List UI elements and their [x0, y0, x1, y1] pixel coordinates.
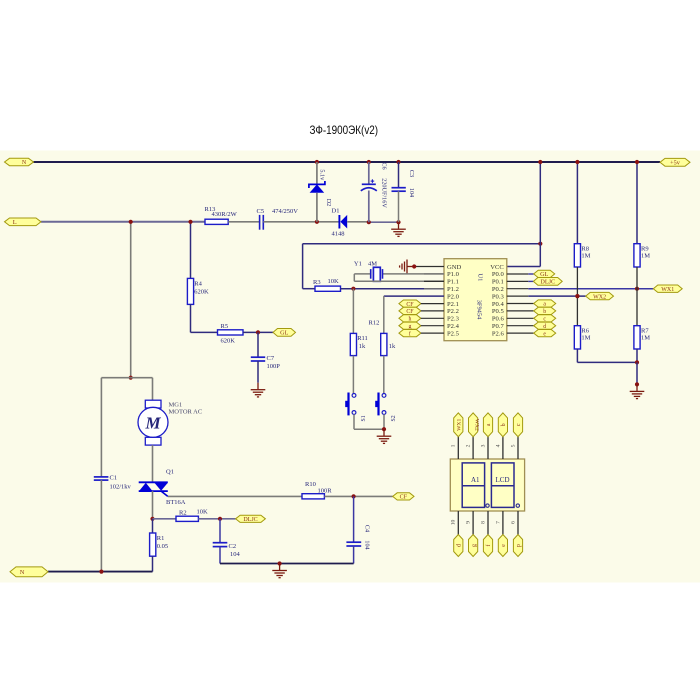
svg-text:R2: R2	[179, 509, 187, 516]
svg-text:R10: R10	[305, 481, 316, 488]
svg-text:WX2: WX2	[473, 419, 479, 431]
junction	[635, 287, 639, 291]
wire	[198, 518, 235, 520]
svg-text:WX1: WX1	[661, 287, 674, 293]
svg-text:1M: 1M	[581, 253, 590, 260]
wire	[507, 310, 534, 312]
svg-text:S1: S1	[361, 415, 367, 421]
wire	[220, 563, 354, 565]
svg-text:R4: R4	[194, 280, 202, 287]
node L	[5, 218, 42, 226]
wire	[219, 519, 221, 543]
wire	[421, 325, 444, 327]
wire	[383, 414, 385, 429]
node d (display bottom)	[454, 535, 463, 557]
capacitor C2	[213, 543, 241, 558]
node CF	[393, 493, 414, 501]
svg-text:4148: 4148	[332, 230, 345, 237]
wire	[302, 244, 304, 289]
svg-text:C3: C3	[408, 170, 415, 177]
svg-text:p: p	[516, 544, 522, 547]
node f (display bottom)	[483, 535, 492, 557]
wire	[41, 221, 205, 223]
svg-text:e: e	[543, 331, 546, 337]
wire	[243, 331, 273, 333]
svg-text:474/250V: 474/250V	[272, 208, 298, 215]
ground (rotated) at GND pin	[400, 260, 415, 274]
junction	[315, 160, 319, 164]
svg-text:P1.2: P1.2	[447, 286, 459, 293]
wire	[101, 377, 130, 379]
wire	[353, 414, 355, 429]
resistor R10	[302, 481, 332, 499]
junction	[575, 294, 579, 298]
junction	[352, 494, 356, 498]
wire	[100, 378, 102, 477]
svg-text:DLJC: DLJC	[243, 517, 257, 523]
wire	[576, 267, 578, 326]
svg-text:P0.5: P0.5	[492, 308, 505, 315]
svg-text:3F9454: 3F9454	[475, 300, 482, 320]
wire	[502, 511, 504, 535]
svg-text:C7: C7	[267, 355, 275, 362]
svg-text:104: 104	[408, 188, 415, 197]
wire	[354, 428, 384, 430]
wire	[354, 280, 444, 282]
triac Q1 BT16A	[139, 468, 186, 506]
wire	[507, 288, 529, 290]
schematic sheet	[0, 151, 700, 583]
wire	[152, 556, 154, 571]
node a	[534, 300, 556, 308]
wire	[168, 495, 302, 497]
wire	[398, 162, 400, 188]
resistor R13	[205, 206, 238, 224]
svg-text:c: c	[516, 423, 522, 426]
resistor R3	[313, 278, 341, 291]
junction	[635, 160, 639, 164]
diode D1	[332, 207, 348, 237]
wire	[517, 511, 519, 535]
switch S1	[345, 393, 367, 422]
svg-text:P0.3: P0.3	[492, 293, 505, 300]
wire	[347, 221, 369, 223]
svg-text:220UF/16V: 220UF/16V	[380, 178, 387, 208]
svg-text:A1: A1	[471, 476, 480, 484]
svg-text:P0.7: P0.7	[492, 323, 505, 330]
junction	[150, 517, 154, 521]
junction	[412, 264, 416, 268]
svg-text:4M: 4M	[368, 260, 377, 267]
wire	[383, 273, 445, 275]
node N (bottom)	[10, 567, 48, 577]
wire	[383, 356, 385, 394]
svg-text:D1: D1	[332, 207, 340, 214]
wire	[507, 332, 534, 334]
junction	[382, 427, 386, 431]
wire	[424, 280, 444, 282]
switch S2	[375, 393, 397, 422]
svg-text:Q1: Q1	[166, 468, 174, 475]
wire	[152, 491, 154, 519]
wire	[421, 332, 444, 334]
node WX1 (display top)	[454, 413, 463, 437]
svg-text:ЗФ-1900ЭК(v2): ЗФ-1900ЭК(v2)	[310, 123, 379, 137]
node a (display top)	[483, 413, 492, 437]
capacitor C6	[361, 162, 388, 208]
svg-text:620K: 620K	[221, 337, 236, 344]
svg-text:GL: GL	[280, 330, 288, 337]
resistor R9	[634, 244, 650, 267]
svg-text:9: 9	[466, 521, 472, 524]
svg-text:104: 104	[364, 540, 371, 549]
node c	[534, 315, 556, 323]
display A1 LCD	[450, 459, 524, 511]
resistor R6	[574, 326, 590, 349]
wire	[507, 303, 534, 305]
node b	[534, 307, 556, 315]
svg-text:C1: C1	[110, 475, 118, 482]
node c (display top)	[513, 413, 522, 437]
junction	[315, 220, 319, 224]
wire	[528, 295, 585, 297]
svg-text:P2.4: P2.4	[447, 323, 460, 330]
svg-text:R3: R3	[313, 279, 321, 286]
wire	[424, 288, 444, 290]
svg-text:P0.0: P0.0	[492, 271, 505, 278]
svg-text:C4: C4	[364, 525, 371, 532]
wire	[257, 361, 259, 383]
svg-text:1M: 1M	[581, 335, 590, 342]
svg-text:5.1v: 5.1v	[318, 169, 325, 181]
svg-text:P2.0: P2.0	[447, 293, 460, 300]
junction	[188, 220, 192, 224]
svg-text:P1.1: P1.1	[447, 279, 459, 286]
svg-text:5: 5	[510, 444, 516, 447]
node CF (P2.1)	[399, 300, 421, 308]
wire	[636, 162, 638, 244]
svg-text:P0.1: P0.1	[492, 279, 504, 286]
svg-text:P0.6: P0.6	[492, 316, 505, 323]
wire	[316, 162, 318, 184]
wire	[153, 518, 177, 520]
crystal Y1 4M	[354, 260, 383, 281]
wire	[398, 191, 400, 222]
svg-text:Y1: Y1	[354, 260, 362, 267]
junction	[256, 330, 260, 334]
resistor R4	[187, 278, 209, 304]
svg-text:P1.0: P1.0	[447, 271, 460, 278]
wire	[457, 437, 459, 459]
svg-text:N: N	[22, 160, 27, 166]
svg-text:10K: 10K	[328, 278, 340, 285]
svg-text:MG1: MG1	[169, 401, 183, 408]
wire	[457, 511, 459, 535]
svg-text:1k: 1k	[389, 343, 396, 350]
wire	[352, 289, 354, 334]
wire	[502, 437, 504, 459]
wire	[191, 331, 218, 333]
svg-text:S2: S2	[391, 415, 397, 421]
wire	[353, 546, 355, 564]
svg-text:P2.6: P2.6	[492, 330, 505, 337]
wire	[228, 221, 259, 223]
svg-text:1M: 1M	[641, 253, 650, 260]
wire	[507, 266, 541, 268]
svg-text:R11: R11	[357, 335, 368, 342]
svg-text:8: 8	[480, 521, 486, 524]
resistor R2	[176, 508, 208, 521]
junction	[367, 160, 371, 164]
motor MG1 MOTOR AC	[138, 400, 202, 445]
wire	[354, 273, 370, 275]
svg-text:C5: C5	[257, 208, 265, 215]
junction	[538, 242, 542, 246]
wire	[421, 303, 444, 305]
junction	[635, 382, 639, 386]
wire	[507, 273, 529, 275]
svg-text:P2.3: P2.3	[447, 316, 460, 323]
capacitor C5	[257, 208, 299, 230]
node d	[534, 322, 556, 330]
ground	[272, 564, 287, 578]
wire	[472, 437, 474, 459]
wire	[152, 378, 154, 401]
wire	[384, 295, 444, 297]
wire	[34, 161, 661, 163]
svg-text:f: f	[409, 330, 411, 337]
node GL	[273, 329, 296, 337]
svg-text:R5: R5	[221, 323, 229, 330]
svg-text:MOTOR AC: MOTOR AC	[169, 408, 203, 415]
svg-text:M: M	[144, 413, 161, 432]
svg-text:R12: R12	[369, 320, 380, 327]
wire	[636, 267, 638, 326]
svg-text:430R/2W: 430R/2W	[212, 211, 238, 218]
power +5v	[660, 158, 690, 166]
wire	[414, 266, 444, 268]
svg-text:R7: R7	[641, 328, 649, 335]
svg-text:10K: 10K	[197, 508, 209, 515]
wire	[303, 243, 541, 245]
wire	[190, 304, 192, 332]
junction	[351, 287, 355, 291]
wire	[507, 325, 534, 327]
svg-text:R6: R6	[581, 328, 589, 335]
wire	[383, 296, 385, 333]
wire	[190, 222, 192, 279]
junction	[575, 294, 579, 298]
junction	[575, 160, 579, 164]
node CF (P2.2)	[399, 307, 421, 315]
wire	[576, 349, 578, 362]
wire	[100, 480, 102, 571]
wire	[368, 191, 370, 223]
svg-text:+5v: +5v	[670, 160, 681, 167]
svg-text:e: e	[501, 544, 507, 547]
svg-text:6: 6	[510, 521, 516, 524]
junction	[129, 376, 133, 380]
ground	[251, 383, 266, 397]
wire	[130, 222, 132, 378]
IC U1 3F9454	[444, 259, 507, 341]
resistor R1	[150, 533, 169, 556]
svg-text:b: b	[501, 423, 507, 426]
node DLJC (P0.1)	[533, 278, 562, 286]
junction	[218, 517, 222, 521]
wire	[303, 288, 315, 290]
svg-text:4: 4	[495, 444, 501, 447]
junction	[129, 220, 133, 224]
wire	[576, 162, 578, 244]
junction	[396, 160, 400, 164]
svg-text:10: 10	[451, 520, 457, 526]
node f	[399, 330, 421, 338]
svg-text:L: L	[13, 219, 17, 226]
wire	[352, 356, 354, 394]
svg-text:P0.4: P0.4	[492, 301, 505, 308]
wire	[257, 332, 259, 357]
resistor R5	[218, 323, 244, 344]
capacitor C3	[392, 170, 416, 197]
junction	[396, 220, 400, 224]
svg-text:R8: R8	[581, 246, 589, 253]
wire	[421, 317, 444, 319]
svg-text:R1: R1	[157, 535, 165, 542]
wire	[507, 317, 534, 319]
wire	[263, 221, 339, 223]
svg-text:7: 7	[495, 521, 501, 524]
svg-text:VCC: VCC	[490, 264, 504, 271]
svg-text:P0.2: P0.2	[492, 286, 504, 293]
svg-text:WX2: WX2	[593, 294, 606, 300]
node GL (P0.0)	[534, 270, 555, 278]
svg-text:102/1kv: 102/1kv	[110, 483, 132, 490]
node p (display bottom)	[513, 535, 522, 557]
node b (display top)	[498, 413, 507, 437]
wire	[487, 437, 489, 459]
ground	[377, 429, 392, 443]
wire	[353, 496, 355, 542]
wire	[577, 361, 637, 363]
svg-text:P2.1: P2.1	[447, 301, 459, 308]
svg-text:620K: 620K	[194, 288, 209, 295]
svg-text:f: f	[485, 544, 492, 546]
capacitor C7	[251, 355, 280, 370]
wire	[369, 221, 399, 223]
wire	[316, 193, 318, 222]
resistor R11	[350, 333, 368, 355]
wire	[472, 511, 474, 535]
wire	[424, 273, 444, 275]
wire	[368, 162, 370, 184]
svg-text:C2: C2	[229, 543, 237, 550]
svg-text:GND: GND	[447, 264, 462, 271]
svg-text:g: g	[471, 544, 477, 547]
node e (display bottom)	[498, 535, 507, 557]
svg-text:R9: R9	[641, 246, 649, 253]
wire	[539, 244, 541, 267]
wire	[131, 377, 153, 379]
wire	[528, 288, 653, 290]
wire	[152, 445, 154, 482]
wire	[507, 295, 529, 297]
ground	[630, 384, 645, 398]
node N	[5, 158, 34, 166]
node h	[399, 315, 421, 323]
capacitor C4	[346, 525, 370, 550]
resistor R12	[369, 320, 396, 356]
svg-text:1k: 1k	[359, 343, 366, 350]
junction	[367, 220, 371, 224]
node DLJC	[236, 515, 266, 523]
wire	[539, 162, 541, 244]
svg-text:BT16A: BT16A	[166, 499, 186, 506]
svg-text:0.05: 0.05	[157, 543, 168, 550]
svg-text:100R: 100R	[318, 487, 333, 494]
wire	[517, 437, 519, 459]
svg-text:CF: CF	[400, 495, 408, 501]
wire	[353, 274, 355, 281]
svg-text:D2: D2	[325, 199, 332, 207]
wire	[219, 547, 221, 564]
resistor R7	[634, 326, 650, 349]
ground	[391, 222, 406, 236]
node e	[534, 330, 556, 338]
junction	[99, 570, 103, 574]
wire	[324, 495, 392, 497]
wire	[421, 310, 444, 312]
svg-text:C6: C6	[380, 162, 387, 169]
wire	[528, 273, 533, 275]
svg-text:104: 104	[230, 551, 241, 558]
svg-text:U1: U1	[476, 273, 483, 281]
wire	[341, 288, 445, 290]
svg-text:1M: 1M	[641, 335, 650, 342]
svg-text:3: 3	[480, 444, 486, 447]
svg-text:a: a	[486, 423, 492, 426]
svg-text:1: 1	[451, 444, 457, 447]
svg-text:100P: 100P	[267, 363, 281, 370]
svg-text:WX1: WX1	[457, 419, 463, 431]
wire	[507, 280, 529, 282]
svg-text:P2.5: P2.5	[447, 330, 460, 337]
wire	[528, 280, 533, 282]
wire	[48, 571, 153, 573]
wire	[636, 362, 638, 384]
svg-text:P2.2: P2.2	[447, 308, 459, 315]
node g (display bottom)	[469, 535, 478, 557]
svg-text:LCD: LCD	[496, 476, 510, 484]
junction	[278, 561, 282, 565]
wire	[487, 511, 489, 535]
junction	[635, 360, 639, 364]
wire	[636, 349, 638, 362]
junction	[538, 160, 542, 164]
resistor R8	[574, 244, 590, 267]
node g	[399, 322, 421, 330]
capacitor C1	[94, 475, 132, 491]
wire	[152, 519, 154, 533]
node WX2	[586, 292, 614, 300]
svg-text:N: N	[20, 569, 25, 576]
node WX1	[653, 285, 682, 293]
zener diode D2	[309, 169, 332, 206]
svg-text:d: d	[457, 544, 463, 547]
svg-text:DLJC: DLJC	[540, 279, 555, 286]
svg-text:2: 2	[466, 444, 472, 447]
node WX2 (display top)	[469, 413, 480, 437]
